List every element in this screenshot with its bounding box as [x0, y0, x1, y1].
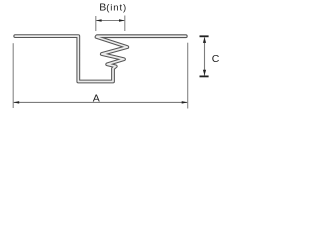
profile outline (bent metal strip with channel and spring)	[15, 36, 186, 81]
svg-text:C: C	[212, 53, 220, 65]
dimension A: line with outward arrows	[13, 101, 188, 104]
dimension B(int): line with outward arrows	[96, 19, 125, 22]
dimension C: bottom tick bar	[200, 75, 209, 77]
dimension A: extension lines	[13, 43, 188, 109]
dimension C: top tick bar	[200, 35, 209, 37]
svg-text:B(int): B(int)	[99, 1, 127, 13]
svg-text:A: A	[93, 92, 100, 104]
dimension B(int): extension ticks	[96, 16, 125, 32]
dimension C: vertical line with outward arrows	[203, 37, 206, 75]
